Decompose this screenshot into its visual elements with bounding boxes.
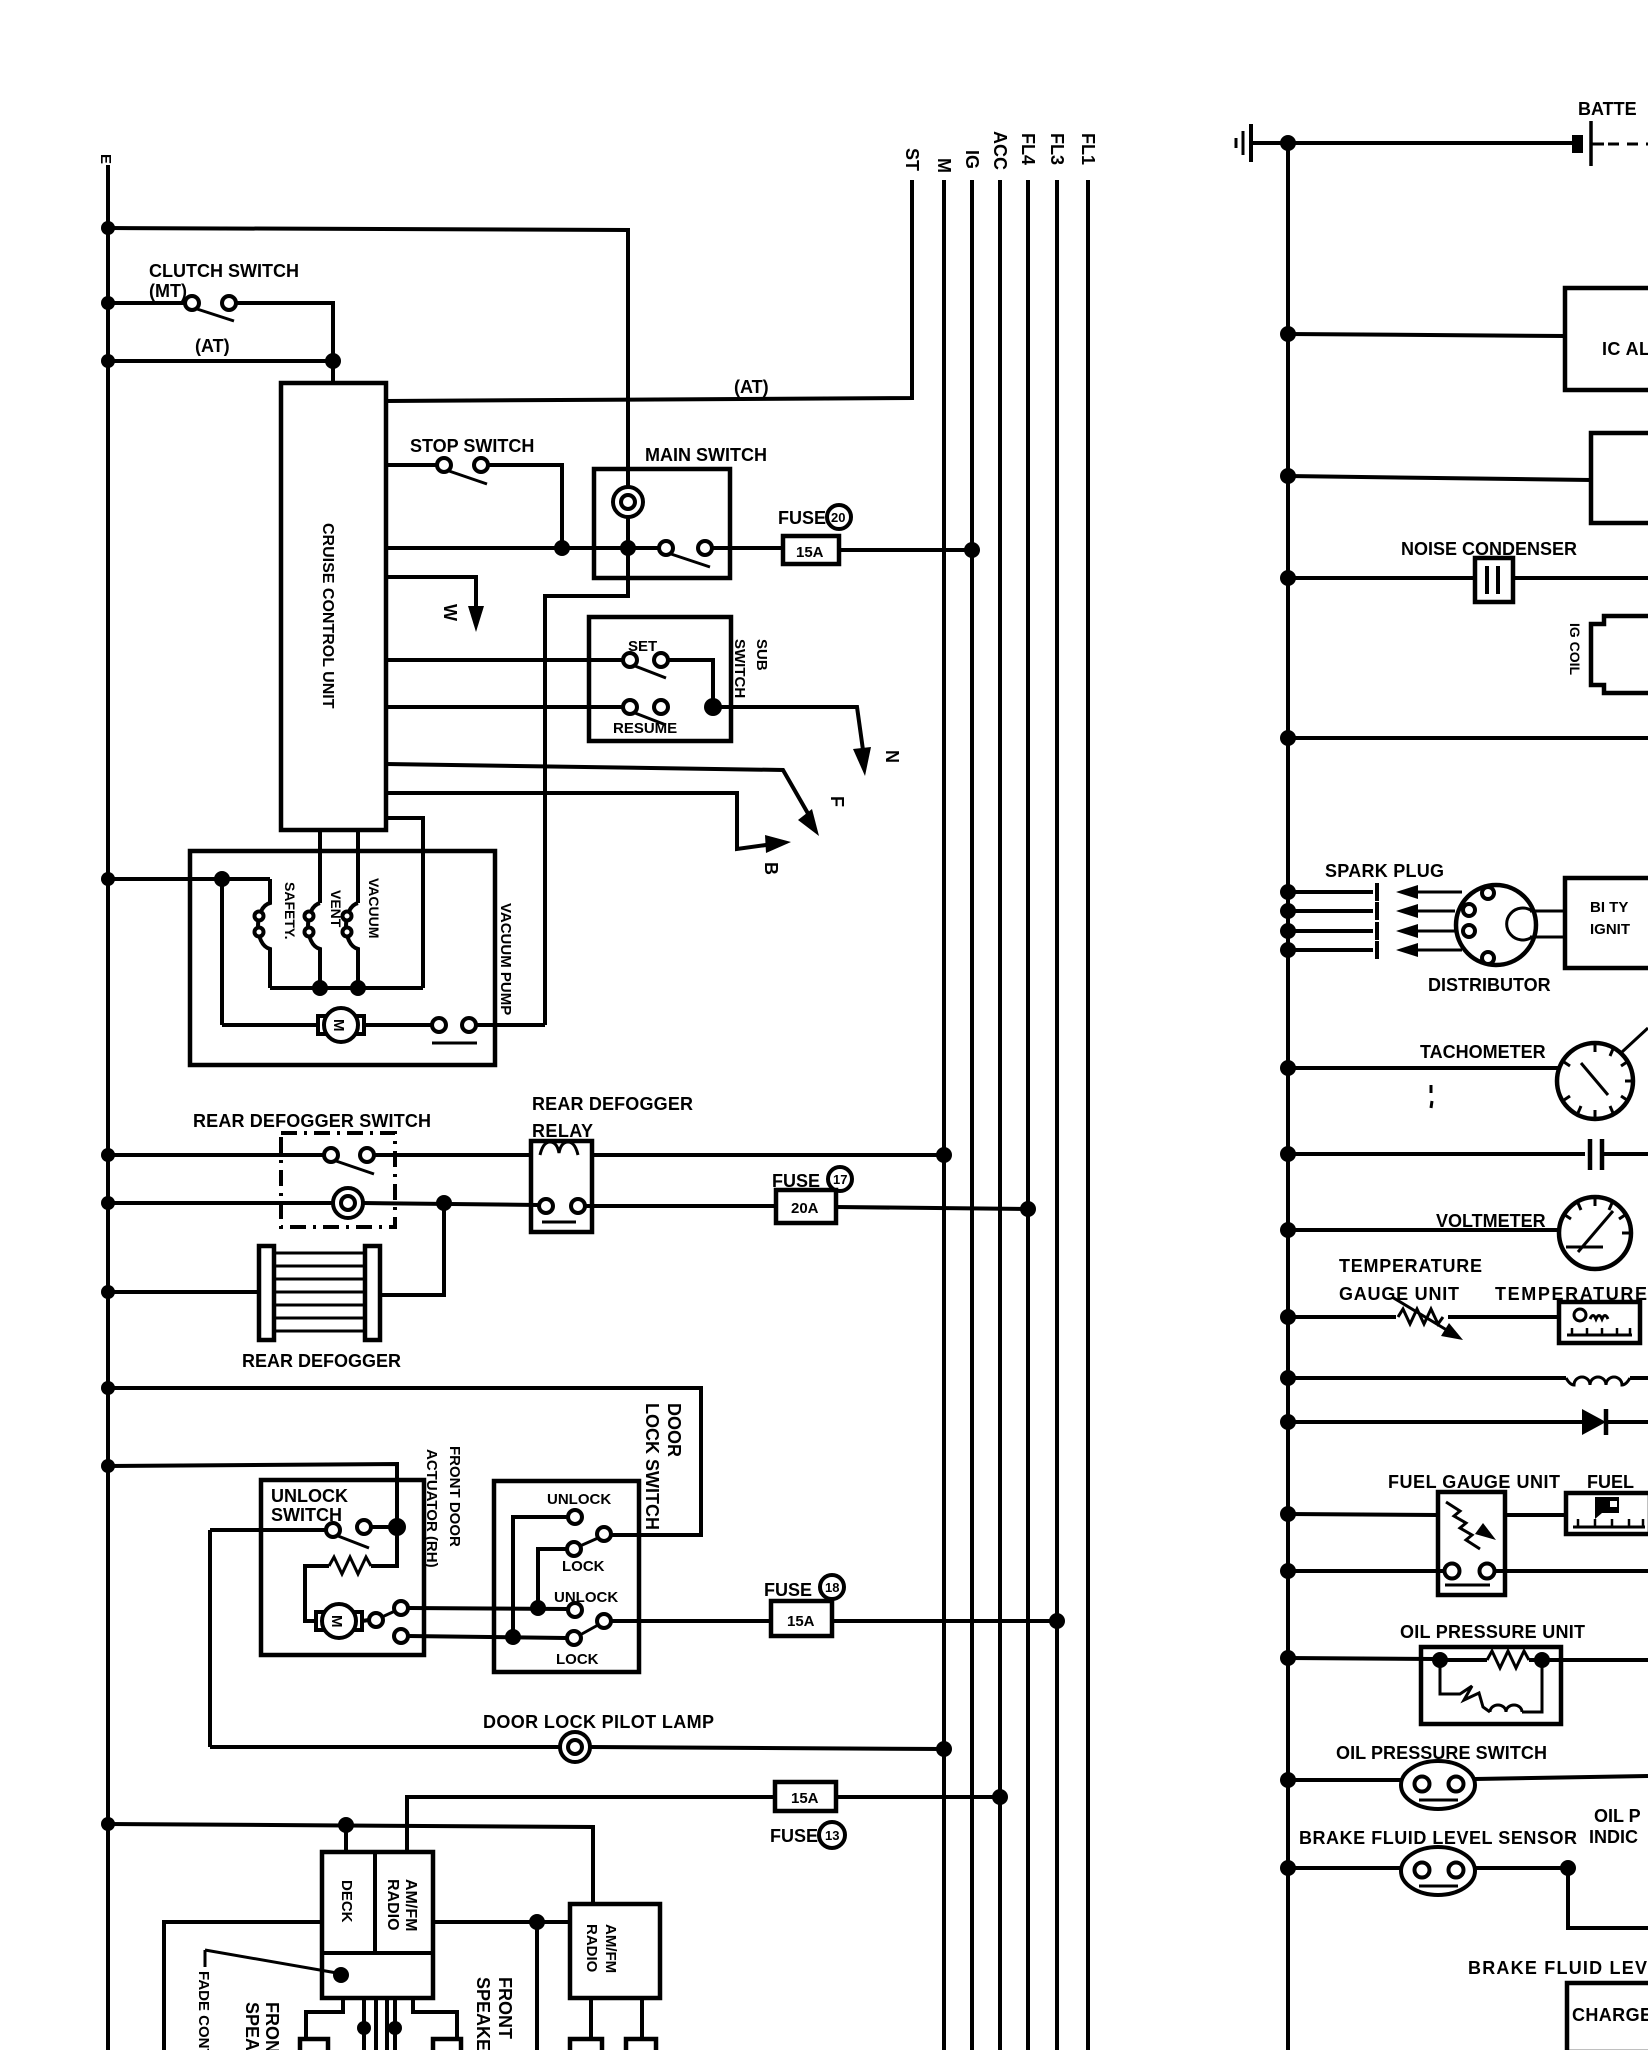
box right edge (unlabeled unit) (1591, 433, 1648, 523)
wire sensor branch down (1568, 1868, 1648, 1928)
svg-text:DISTRIBUTOR: DISTRIBUTOR (1428, 975, 1551, 995)
fuse 20 body 15A (783, 536, 839, 564)
wire pilot lamp row (210, 1745, 561, 1749)
svg-text:OIL PRESSURE UNIT: OIL PRESSURE UNIT (1400, 1622, 1585, 1642)
deck pin wires (306, 1998, 343, 2039)
fuse 13 body 15A (775, 1782, 836, 1811)
svg-text:BI TY: BI TY (1590, 899, 1628, 916)
arrow B (765, 835, 791, 853)
wire set to resume node (668, 660, 713, 707)
svg-text:FL3: FL3 (1047, 133, 1067, 165)
pump contacts (432, 1018, 446, 1032)
oil pressure unit box (1421, 1647, 1561, 1724)
svg-text:RESUME: RESUME (613, 720, 677, 737)
wire unit to fuel gauge (1505, 1513, 1566, 1517)
spark plug wires (1280, 883, 1377, 959)
oil pressure switch (1401, 1761, 1475, 1809)
set switch (623, 653, 637, 667)
pilot lamp (560, 1732, 590, 1762)
motor M door actuator (316, 1612, 325, 1630)
svg-text:TEMPERATURE: TEMPERATURE (1339, 1256, 1482, 1276)
wire bus row under coil (1288, 736, 1648, 740)
bus M (942, 180, 946, 2050)
svg-text:TACHOMETER: TACHOMETER (1420, 1042, 1546, 1062)
junction fuse13/ACC (992, 1789, 1008, 1805)
wire sensor to lamp (1475, 1866, 1568, 1870)
svg-text:MAIN SWITCH: MAIN SWITCH (645, 445, 767, 465)
wire bus capacitor row (1288, 1152, 1585, 1156)
battery symbol (1572, 135, 1583, 153)
door lock switch box (494, 1481, 639, 1672)
svg-text:M: M (328, 1615, 345, 1628)
svg-text:VENT: VENT (328, 890, 344, 928)
BI type igniter box (1565, 878, 1648, 968)
wire fuse 18 to FL3 (832, 1619, 1057, 1623)
IC alternator box (1565, 288, 1648, 390)
svg-text:SPEAK: SPEAK (242, 2002, 262, 2050)
wire bus to unit (1288, 476, 1591, 480)
wire lamp to relay contacts (362, 1203, 538, 1205)
wire thermistor to temp gauge (1448, 1315, 1559, 1319)
arrow F (798, 809, 819, 836)
junction stop/main (554, 540, 570, 556)
svg-text:15A: 15A (796, 544, 824, 561)
ground symbol (1236, 124, 1288, 162)
wire CCU to B arrow (386, 793, 766, 849)
wire stop switch to main wire (488, 465, 562, 548)
svg-text:M: M (934, 158, 954, 173)
svg-text:FUSE: FUSE (764, 1580, 812, 1600)
svg-text:RELAY: RELAY (532, 1121, 593, 1141)
svg-text:FL4: FL4 (1018, 133, 1038, 165)
clutch switch CLUTCH SWITCH (MT) (185, 296, 199, 310)
svg-text:SWITCH: SWITCH (731, 639, 748, 698)
diode (1582, 1409, 1606, 1435)
svg-text:15A: 15A (787, 1613, 815, 1630)
junction sub switch output (704, 698, 722, 716)
junction defogger tap (436, 1195, 452, 1211)
wire unlock switch to node (371, 1525, 397, 1529)
junction fuse20/IG (964, 542, 980, 558)
tachometer gauge (1557, 1028, 1648, 1119)
vacuum pump box (190, 851, 495, 1065)
wire bus fuel unit bottom row (1288, 1569, 1444, 1573)
wire CCU W output (386, 577, 476, 612)
wire unlock contact to lock line (513, 1517, 568, 1637)
rear defogger relay box (531, 1141, 592, 1232)
wire sub switch to N arrow (713, 707, 863, 750)
svg-text:(AT): (AT) (195, 336, 230, 356)
svg-text:IG: IG (962, 150, 982, 169)
wire bus to fuel gauge unit (1288, 1514, 1438, 1515)
wire E to rear defogger (108, 1290, 259, 1294)
wire bus to oil pressure switch (1288, 1778, 1402, 1782)
svg-text:F: F (827, 796, 847, 807)
wire AT bypass (108, 359, 333, 363)
resistor actuator (329, 1557, 371, 1574)
wire E to deck and radio (108, 1824, 593, 1904)
svg-text:IG COIL: IG COIL (1567, 623, 1583, 676)
stop switch (437, 458, 451, 472)
fuel unit contacts (1445, 1564, 1460, 1579)
wire bus to voltmeter (1288, 1228, 1560, 1232)
wire bus to alternator (1288, 334, 1565, 336)
junction pump feed (214, 871, 230, 887)
junction speaker line (529, 1914, 545, 1930)
bus FL4 (1026, 180, 1030, 2050)
arrow N (853, 747, 871, 776)
svg-text:DOOR LOCK PILOT LAMP: DOOR LOCK PILOT LAMP (483, 1712, 714, 1732)
svg-text:UNLOCK: UNLOCK (554, 1589, 618, 1606)
svg-text:VACUUM: VACUUM (366, 878, 382, 938)
oil unit resistor row (1432, 1652, 1448, 1668)
solenoid VACUUM (346, 903, 358, 988)
rear defogger switch lamp (108, 1201, 334, 1205)
wire bus to oil pressure unit (1288, 1658, 1434, 1659)
wire pump feed down to motor (220, 879, 224, 1025)
svg-text:BATTE: BATTE (1578, 99, 1637, 119)
wire fuel unit out (1494, 1569, 1648, 1573)
svg-text:IGNIT: IGNIT (1590, 921, 1630, 938)
wire unlock switch down to pilot lamp (208, 1530, 212, 1747)
svg-text:REAR DEFOGGER: REAR DEFOGGER (532, 1094, 693, 1114)
svg-text:VACUUM PUMP: VACUUM PUMP (497, 903, 514, 1015)
wire E bus vertical (106, 165, 110, 2050)
svg-text:UNLOCK: UNLOCK (547, 1491, 611, 1508)
junction relay/M (936, 1147, 952, 1163)
svg-text:LOCK: LOCK (562, 1558, 605, 1575)
svg-text:OIL P: OIL P (1594, 1806, 1641, 1826)
fuel gauge box (1566, 1493, 1648, 1534)
sub switch box (589, 617, 731, 741)
actuator changeover contacts (362, 1620, 369, 1621)
wire CCU to ST bus (386, 180, 912, 401)
svg-text:SAFETY.: SAFETY. (282, 882, 298, 940)
svg-text:RADIO: RADIO (384, 1879, 401, 1931)
svg-text:17: 17 (833, 1172, 847, 1187)
wire fuse 13 to ACC (836, 1795, 1000, 1799)
svg-text:DOOR: DOOR (664, 1403, 684, 1457)
wire bus inductor row (1288, 1376, 1566, 1380)
svg-text:FL1: FL1 (1078, 133, 1098, 165)
wire rail riser to CCU (386, 818, 423, 988)
svg-text:SPEAKER: SPEAKER (473, 1977, 493, 2050)
junction vent rail (312, 980, 328, 996)
wire CCU to RESUME (386, 705, 624, 709)
wire AT node into CCU (331, 361, 335, 384)
svg-text:B: B (761, 862, 781, 875)
arrow W (468, 606, 484, 632)
temp gauge unit thermistor (1398, 1309, 1443, 1324)
temperature gauge box (1559, 1302, 1640, 1343)
wire top feed to main-switch lamp (108, 228, 628, 487)
distributor arrows (1396, 885, 1462, 957)
wire CCU to stop switch (386, 463, 438, 467)
wire CCU to F arrow (386, 764, 810, 817)
unlock contact top (568, 1510, 582, 1524)
wire noise condenser out (1513, 576, 1648, 580)
inductor (1566, 1377, 1630, 1385)
wire resistor to motor (305, 1566, 329, 1621)
svg-text:AM/FM: AM/FM (402, 1879, 419, 1931)
junction unlock line (530, 1600, 546, 1616)
unlock switch (326, 1523, 340, 1537)
wire actuator unlock line (408, 1608, 567, 1609)
junction deck feed (338, 1817, 354, 1833)
relay coil (540, 1142, 578, 1155)
lamp main switch illumination (613, 487, 643, 517)
motor M vacuum pump (318, 1016, 327, 1034)
svg-text:20: 20 (831, 510, 845, 525)
junction E-clutch (101, 296, 115, 310)
rear defogger element (259, 1246, 380, 1340)
right bus (1286, 143, 1290, 2050)
wire E to door lock switch feed (108, 1388, 701, 1535)
svg-text:FRONT: FRONT (495, 1977, 515, 2039)
unlock contact bottom (568, 1603, 582, 1617)
junction E-top (101, 221, 115, 235)
svg-text:20A: 20A (791, 1200, 819, 1217)
wire unlock switch feed (210, 1528, 326, 1532)
svg-text:AM/FM: AM/FM (602, 1924, 619, 1973)
svg-text:ACC: ACC (990, 131, 1010, 170)
wire E to unlock switch assembly (108, 1464, 397, 1527)
fuse 18 body 15A (771, 1601, 832, 1636)
svg-text:FUSE: FUSE (778, 508, 826, 528)
wire bus to tachometer (1288, 1066, 1558, 1070)
junction E pump (101, 872, 115, 886)
deck / radio box (322, 1852, 433, 1998)
svg-text:FADE CONT: FADE CONT (195, 1971, 212, 2050)
wire bus diode row (1288, 1420, 1584, 1424)
wire clutch switch to AT node (236, 303, 333, 361)
svg-text:LOCK SWITCH: LOCK SWITCH (642, 1403, 662, 1530)
svg-text:13: 13 (825, 1828, 839, 1843)
wire relay coil to M bus (592, 1153, 944, 1157)
svg-text:M: M (330, 1019, 347, 1032)
brake fluid level sensor (1401, 1847, 1475, 1895)
svg-text:LOCK: LOCK (556, 1651, 599, 1668)
speaker plug mid (433, 2039, 461, 2050)
svg-text:FRONT DOOR: FRONT DOOR (446, 1446, 463, 1547)
voltmeter gauge (1559, 1197, 1631, 1269)
junction actuator feed (388, 1518, 406, 1536)
IG coil box (1591, 616, 1648, 693)
junction vacuum rail (350, 980, 366, 996)
wire fuse 17 to FL4 (836, 1207, 1028, 1209)
svg-text:CLUTCH SWITCH: CLUTCH SWITCH (149, 261, 299, 281)
wire valve common rail (270, 986, 423, 990)
svg-text:N: N (882, 750, 902, 763)
svg-text:E: E (97, 154, 114, 164)
svg-text:SPARK PLUG: SPARK PLUG (1325, 861, 1444, 881)
wire motor feed (222, 1023, 322, 1027)
wire deck feed (344, 1825, 348, 1852)
oil unit heater branch (1440, 1660, 1490, 1712)
junction lock line (505, 1629, 521, 1645)
svg-text:CRUISE CONTROL UNIT: CRUISE CONTROL UNIT (319, 523, 336, 709)
wire main switch node down to vacuum pump (545, 548, 628, 1025)
svg-text:(AT): (AT) (734, 377, 769, 397)
svg-text:INDIC: INDIC (1589, 1827, 1638, 1847)
svg-text:REAR DEFOGGER: REAR DEFOGGER (242, 1351, 401, 1371)
resume switch (623, 700, 637, 714)
junction fuse17/FL4 (1020, 1201, 1036, 1217)
charge box (1567, 1983, 1648, 2050)
main switch contacts (659, 541, 673, 555)
wire blade to fuse 18 (611, 1619, 771, 1623)
wire lock contact to unlock line (538, 1549, 567, 1608)
bus FL3 (1055, 180, 1059, 2050)
wire CCU to main switch (386, 546, 660, 550)
svg-text:W: W (440, 604, 460, 621)
wire CCU pin to vent valve (318, 830, 322, 903)
junction AT (325, 353, 341, 369)
wire bus to temp sender (1288, 1315, 1396, 1319)
wire CCU to SET (386, 658, 624, 662)
wire speaker line down (535, 1922, 539, 2050)
svg-text:IC AL: IC AL (1602, 339, 1648, 359)
wire node to resistor (371, 1527, 397, 1566)
wire lamp to switch node (626, 517, 630, 548)
wire fuse 20 to IG bus (839, 548, 972, 552)
wire bus to noise condenser (1288, 576, 1475, 580)
svg-text:RADIO: RADIO (583, 1924, 600, 1973)
svg-text:15A: 15A (791, 1790, 819, 1807)
svg-text:(MT): (MT) (149, 281, 187, 301)
wire tap down to defogger (380, 1203, 444, 1295)
bus FL1 (1086, 180, 1090, 2050)
svg-text:CHARGE: CHARGE (1572, 2005, 1648, 2025)
rear defogger switch box (dash-dot) (281, 1133, 395, 1227)
junction fuse18/FL3 (1049, 1613, 1065, 1629)
junction pilot/M (936, 1741, 952, 1757)
wire E to defogger switch (108, 1153, 325, 1157)
svg-text:ACTUATOR (RH): ACTUATOR (RH) (423, 1449, 440, 1568)
wire bus to battery (1288, 141, 1572, 145)
wire radio feed to fuse 13 (407, 1797, 775, 1852)
svg-text:FUEL GAUGE UNIT: FUEL GAUGE UNIT (1388, 1472, 1560, 1492)
am/fm radio box right (570, 1904, 660, 1998)
solenoid SAFETY (258, 879, 270, 988)
fade control pointer (204, 1950, 207, 1967)
wire relay to fuse 17 (585, 1204, 776, 1208)
junction E-AT (101, 354, 115, 368)
wire pump contact out (476, 1023, 545, 1027)
cruise control unit box (281, 383, 386, 830)
wire pilot lamp to M bus (589, 1747, 944, 1749)
wire ground to deck (164, 1922, 322, 2050)
wire radio legs (589, 1998, 593, 2039)
speaker plug left (300, 2039, 328, 2050)
svg-text:BRAKE FLUID LEV: BRAKE FLUID LEV (1468, 1958, 1647, 1978)
wire clutch switch feed (108, 301, 185, 305)
door lock switch blade bottom (597, 1614, 611, 1628)
svg-text:FUSE: FUSE (770, 1826, 818, 1846)
svg-text:UNLOCK: UNLOCK (271, 1486, 348, 1506)
wire E to safety valve (108, 877, 270, 881)
solenoid VENT (308, 903, 320, 988)
wire deck to right radio (433, 1920, 570, 1924)
svg-text:STOP SWITCH: STOP SWITCH (410, 436, 534, 456)
distributor (1456, 885, 1536, 965)
relay contacts (539, 1199, 553, 1213)
svg-text:FRONT: FRONT (262, 2002, 282, 2050)
wire motor to pump contacts (364, 1023, 431, 1027)
rear defogger switch contacts (324, 1148, 338, 1162)
fuel gauge unit box (1438, 1492, 1505, 1595)
junction E defogger (101, 1148, 115, 1162)
stray mark (1430, 1085, 1433, 1093)
svg-text:ST: ST (902, 148, 922, 171)
main switch box (594, 469, 730, 578)
door lock switch blade top (597, 1527, 611, 1541)
front door actuator box (261, 1480, 424, 1655)
bus IG (970, 180, 974, 2050)
noise condenser (1475, 558, 1513, 602)
fuse 17 body 20A (776, 1190, 836, 1223)
wire actuator lock line (408, 1636, 566, 1638)
fuel unit thermistor (1446, 1502, 1480, 1549)
wire oil pressure switch out (1475, 1776, 1648, 1779)
svg-text:FUEL: FUEL (1587, 1472, 1634, 1492)
svg-text:18: 18 (825, 1580, 839, 1595)
bus ACC (998, 180, 1002, 2050)
svg-text:REAR DEFOGGER SWITCH: REAR DEFOGGER SWITCH (193, 1111, 431, 1131)
junction lamp/main (620, 540, 636, 556)
wire bus to brake fluid sensor (1288, 1866, 1402, 1870)
svg-text:SUB: SUB (753, 639, 770, 671)
capacitor (1588, 1139, 1593, 1170)
radio speaker plugs (570, 2039, 602, 2050)
wire main switch to fuse 20 (712, 546, 783, 550)
wire CCU pin to vacuum valve (356, 830, 360, 903)
wire defogger switch to relay coil (374, 1153, 531, 1157)
svg-text:DECK: DECK (338, 1880, 355, 1923)
